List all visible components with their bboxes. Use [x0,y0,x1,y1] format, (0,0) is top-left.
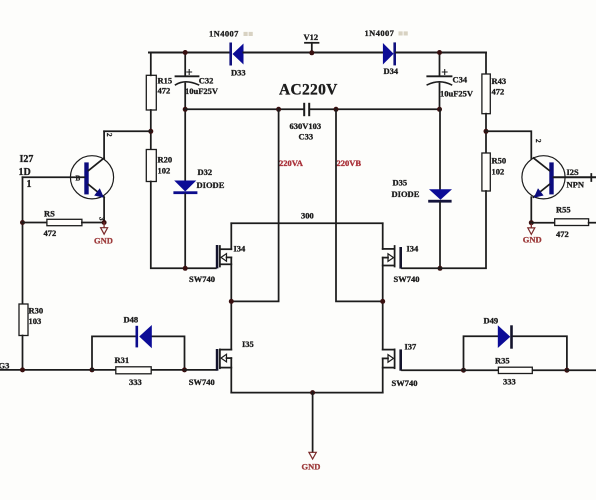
svg-text:10uF25V: 10uF25V [440,88,474,98]
svg-text:630V103: 630V103 [290,121,322,131]
wire R50 bottom to gate row [402,191,486,268]
wire R43-R50 link [485,114,487,153]
svg-text:I27: I27 [20,154,34,165]
diode D35 [392,178,453,203]
svg-text:R43: R43 [492,76,507,86]
svg-text:D32: D32 [198,167,213,177]
node 220VA tap [276,107,281,112]
svg-text:D35: D35 [393,178,408,188]
svg-text:472: 472 [492,87,505,97]
svg-text:DIODE: DIODE [392,189,420,199]
wire gate lead I35 [185,369,216,371]
wire R15 top lead [150,53,152,76]
transistor Q1 I27 [19,154,114,199]
wire C32 bottom lead [184,84,186,110]
svg-text:NPN: NPN [567,180,585,190]
node right phase [380,299,385,304]
node D48 loop left [90,367,95,372]
node D35 / gate row right [438,266,443,271]
node G3 junction [20,367,25,372]
svg-text:D48: D48 [124,315,139,325]
node bottom rail center [310,390,315,395]
resistor R55 [531,205,596,239]
resistor R31 [92,355,185,387]
watermark blob after 1N4007 left [243,29,253,39]
node collector tap left [148,129,153,134]
wire M3 source [230,358,232,393]
svg-text:R55: R55 [556,205,571,215]
svg-text:102: 102 [492,167,505,177]
node V12 junction [309,50,314,55]
wire top rail middle segment [244,52,384,54]
svg-text:■■: ■■ [398,28,408,38]
svg-text:■■: ■■ [243,29,253,39]
svg-text:GND: GND [94,235,113,245]
resistor R20 [146,150,172,182]
svg-text:472: 472 [556,229,569,239]
wire C34 node to D35 [439,109,441,189]
svg-text:D49: D49 [484,316,499,326]
node D32 / gate row left [183,266,188,271]
svg-text:D33: D33 [231,68,246,78]
svg-text:R20: R20 [158,155,173,165]
diode D34 [365,28,399,76]
svg-text:I35: I35 [242,339,254,349]
node D48 loop right [182,367,187,372]
node top rail / C32 [183,50,188,55]
label AC220V [279,82,338,99]
node C32 bottom / AC row [183,107,188,112]
ground GND left [94,223,113,246]
wire gate row right edge [567,369,596,371]
wire D48 loop [92,336,185,370]
node collector tap right [484,129,489,134]
mosfet M1 I34 top-left [189,244,246,284]
resistor R15 [146,75,172,110]
mosfet M3 I35 bottom-left [189,339,254,387]
svg-text:333: 333 [503,376,516,386]
net label 300 [301,211,314,221]
node D49 loop left [461,368,466,373]
svg-text:B: B [76,175,81,183]
wire M1 source / left phase [230,257,232,349]
svg-text:R50: R50 [492,156,507,166]
svg-text:2: 2 [105,133,113,137]
svg-text:472: 472 [158,86,171,96]
svg-text:R31: R31 [115,355,130,365]
node C34 bottom / AC row [437,107,442,112]
wire R15-R20 link [150,110,152,150]
svg-text:I2S: I2S [567,167,580,177]
diode D49 [484,316,513,349]
wire top rail left segment [149,52,230,54]
ground GND right [523,223,542,245]
svg-text:D34: D34 [384,66,399,76]
diode D33 [209,29,246,78]
wire collector link left [104,131,151,158]
pin 2 label Q1 collector [105,133,113,137]
svg-text:R35: R35 [495,356,510,366]
wire left rail vertical [22,177,24,304]
wire Q1 emitter down [103,197,105,222]
transistor Q2 I2S NPN [522,156,585,199]
wire R20 bottom to gate row [151,182,216,269]
wire D49 loop [464,336,567,370]
resistor RS [23,209,105,239]
svg-text:220VB: 220VB [337,158,362,168]
svg-text:300: 300 [301,211,314,221]
svg-text:I34: I34 [234,244,247,254]
svg-text:SW740: SW740 [394,274,420,284]
capacitor C32 10uF25V [176,70,219,96]
node Q2 emitter / gnd [529,220,534,225]
resistor R43 [482,53,506,114]
watermark blob after 1N4007 right [398,28,408,38]
wire H-bridge bottom rail [231,392,382,394]
wire collector link right [486,131,531,158]
wire top rail right segment [396,52,486,54]
svg-text:220VA: 220VA [279,158,304,168]
node D49 loop right [564,368,569,373]
wire 220VB vertical [336,109,383,301]
net label 220VA [279,158,304,168]
svg-text:C33: C33 [299,132,314,142]
capacitor C34 10uF25V [427,53,474,110]
svg-text:1: 1 [27,179,32,190]
wire Q2 emitter down [530,197,532,223]
node G3 [0,361,9,371]
wire mid column C32 node to D32 [184,109,186,180]
wire Q2 base [554,174,596,181]
pin 3 label Q1 emitter [98,217,106,221]
wire D32 bottom lead [184,194,186,268]
svg-text:V12: V12 [304,32,319,42]
svg-text:102: 102 [158,166,171,176]
mosfet M4 I37 bottom-right [383,342,418,389]
wire Q1 base [23,176,85,178]
svg-text:I34: I34 [407,244,420,254]
ground GND bottom [302,393,321,472]
svg-text:472: 472 [44,228,57,238]
svg-text:1D: 1D [19,167,31,178]
svg-text:GND: GND [523,235,542,245]
resistor R50 [482,153,506,191]
wire D35 bottom lead [439,203,441,269]
svg-text:RS: RS [44,209,55,219]
wire 220VA vertical [231,109,278,301]
svg-text:10uF25V: 10uF25V [185,86,219,96]
svg-text:C34: C34 [453,75,468,85]
svg-text:333: 333 [129,377,142,387]
svg-text:SW740: SW740 [392,378,418,388]
mosfet M2 I34 top-right [383,244,420,284]
node left phase [229,299,234,304]
wire R30 bottom lead [22,336,24,370]
svg-text:R30: R30 [29,306,44,316]
svg-text:1N4007: 1N4007 [209,29,239,39]
wire gate row left [0,369,92,371]
svg-text:1N4007: 1N4007 [365,28,395,38]
svg-text:C32: C32 [199,76,214,86]
wire M2 drain [382,223,384,249]
svg-text:R15: R15 [158,76,173,86]
capacitor C33 630V103 [290,103,322,142]
node top rail / C34 [437,50,442,55]
resistor R35 [464,356,567,387]
wire M2 source / right phase [382,258,384,350]
svg-text:G3: G3 [0,361,9,371]
svg-text:SW740: SW740 [189,377,215,387]
resistor R30 [19,304,43,336]
diode D32 [173,167,224,194]
node Q1 emitter / gnd [102,220,107,225]
node RS left [20,220,25,225]
wire H-bridge top rail [231,222,382,224]
net label 220VB [337,158,362,168]
svg-text:103: 103 [29,316,42,326]
svg-text:I37: I37 [405,342,418,352]
svg-text:2: 2 [534,139,542,143]
wire M4 gate lead [402,369,464,371]
wire M4 source [382,358,384,392]
wire AC row left of C33 [185,108,303,110]
pin 2 label Q2 collector [534,139,542,143]
node 220VB tap [334,107,339,112]
power port V12 [304,32,319,53]
wire AC row right of C33 [310,108,439,110]
diode D48 [124,315,152,349]
wire M1 drain [230,223,232,249]
svg-text:SW740: SW740 [189,274,215,284]
wire C32 top lead [184,53,186,76]
svg-text:GND: GND [302,462,321,472]
svg-text:AC220V: AC220V [279,82,338,99]
svg-text:DIODE: DIODE [197,180,225,190]
